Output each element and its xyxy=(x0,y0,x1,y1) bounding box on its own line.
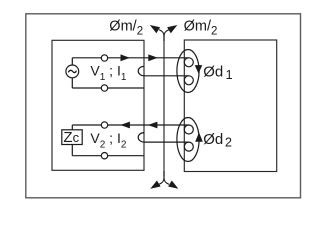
terminal V1 top xyxy=(101,55,107,61)
leakage flux loop d2 xyxy=(177,118,199,162)
wire V1 top xyxy=(72,57,189,59)
svg-text:Øm/2: Øm/2 xyxy=(109,19,143,38)
bottom flux arrow right xyxy=(168,181,178,189)
bottom flux fork stem xyxy=(159,171,169,184)
current arrow I2 b xyxy=(148,122,158,129)
svg-text:Øm/2: Øm/2 xyxy=(184,19,218,38)
outer border frame xyxy=(26,14,301,198)
load impedance Zc box xyxy=(62,130,82,145)
winding 2 turn loop on left limb edge xyxy=(138,133,144,143)
top flux arrow left xyxy=(150,25,160,33)
svg-text:V2 ; I2: V2 ; I2 xyxy=(90,130,126,151)
terminal V2 top xyxy=(101,122,107,128)
winding 2 turn circle upper xyxy=(184,125,193,134)
source V1 tilde xyxy=(68,70,76,72)
svg-text:V1 ; I1: V1 ; I1 xyxy=(90,62,126,83)
winding 1 turn loop on left limb edge xyxy=(138,66,144,76)
leakage flux loop d1 xyxy=(177,50,199,93)
terminal V1 bottom xyxy=(101,85,107,91)
source V1 circle xyxy=(66,65,79,78)
winding 1 middle wire xyxy=(144,75,189,77)
svg-text:Ød1: Ød1 xyxy=(203,64,232,82)
svg-text:Zc: Zc xyxy=(63,129,79,146)
winding 2 middle wire xyxy=(144,141,189,143)
top flux fork stem xyxy=(159,30,169,41)
wire V1 left side xyxy=(71,58,73,88)
current arrow I2 a xyxy=(120,122,129,129)
winding 1 turn circle upper xyxy=(184,58,193,67)
core window left xyxy=(52,40,144,170)
main flux line (center limb) xyxy=(163,36,165,177)
winding 2 turn circle lower xyxy=(184,142,193,151)
svg-text:Ød2: Ød2 xyxy=(203,131,232,150)
leakage flux arrow d1 xyxy=(195,65,203,74)
wire V2 top xyxy=(72,124,189,126)
terminal V2 bottom xyxy=(101,153,107,159)
top flux arrow right xyxy=(167,25,177,33)
wire V2 bottom xyxy=(72,155,144,157)
wire V2 left side xyxy=(71,125,73,156)
bottom flux arrow left xyxy=(150,181,160,189)
wire V1 bottom xyxy=(72,87,144,89)
current arrow I1 b xyxy=(148,54,158,61)
core window right xyxy=(184,40,276,172)
winding 1 turn circle lower xyxy=(184,76,193,85)
leakage flux arrow d2 xyxy=(195,132,203,141)
current arrow I1 a xyxy=(121,54,131,61)
